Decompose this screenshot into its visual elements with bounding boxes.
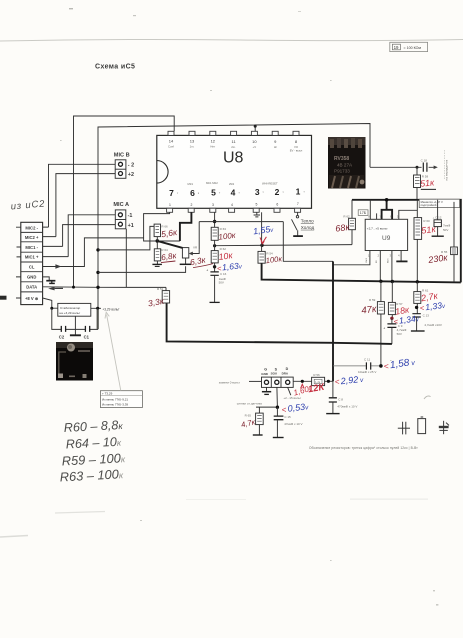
svg-text:MIC2 -: MIC2 - [25, 225, 38, 230]
resistor R64 [152, 248, 168, 267]
wire: pin3 drop to node [261, 212, 263, 251]
wire: MIC A +1 to J1 [63, 225, 116, 247]
node sensor [276, 406, 279, 409]
svg-text:14: 14 [169, 139, 174, 144]
symbol: polarized cap [439, 421, 449, 434]
scan specks top [69, 8, 73, 9]
node R63 bottom [213, 244, 216, 247]
svg-text:5: 5 [211, 188, 216, 198]
connector GND SOU DRA [261, 367, 293, 387]
arrow to transmitter [434, 166, 438, 170]
thick wire: pin6 zigzag [180, 212, 192, 241]
svg-text:6: 6 [190, 188, 195, 198]
stray pencil mark [424, 396, 431, 399]
note box: Меняется +1,47V подстройкой [419, 199, 459, 207]
svg-text:C2: C2 [59, 335, 65, 340]
capacitor C15 [273, 407, 303, 437]
U9 pin4 ground [396, 251, 407, 262]
photo of PCB (bottom left) [56, 342, 93, 381]
svg-text:SOU: SOU [271, 372, 278, 376]
svg-text:вых: вых [365, 257, 368, 262]
U9 pin sideways labels [365, 257, 390, 263]
IC U8 [157, 135, 312, 208]
svg-text:DATA: DATA [26, 285, 37, 290]
svg-text:+2: +2 [128, 172, 134, 178]
svg-text:Схема иС5: Схема иС5 [95, 64, 135, 71]
svg-text:10к: 10к [218, 250, 234, 262]
scan artifact top wavy line [0, 39, 463, 41]
svg-text:2: 2 [191, 203, 193, 207]
svg-text:Холод: Холод [301, 225, 315, 230]
svg-text:GND: GND [261, 372, 269, 376]
svg-text:17Б: 17Б [360, 211, 367, 215]
svg-text:= 100 КОм: = 100 КОм [404, 46, 422, 50]
svg-text:47мкФ х 10 V: 47мкФ х 10 V [284, 422, 302, 426]
resistor R62b 10k [211, 247, 226, 272]
wire: sensor row [256, 387, 277, 407]
svg-text:Нет: Нет [210, 145, 215, 149]
svg-text:R 64: R 64 [161, 248, 168, 252]
resistor R59 [369, 281, 384, 366]
resistor R62 68k [343, 215, 355, 245]
svg-text:GND: GND [27, 275, 36, 280]
wire: CL row with arrow [43, 238, 144, 267]
svg-text:-1: -1 [128, 213, 133, 219]
left edge dark dash [0, 296, 7, 300]
svg-text:3: 3 [255, 187, 260, 197]
U9 top jumper loop (thick) [382, 200, 393, 220]
svg-text:MIC1 +: MIC1 + [25, 255, 39, 260]
resistor R61 [414, 282, 429, 314]
VR wiper arrow [192, 250, 199, 254]
svg-text:Coef: Coef [168, 145, 174, 149]
wire: bias branch to R66 top [98, 226, 154, 250]
ground between C2 C1 [74, 316, 76, 335]
wire: +V rail top (y127 to x370) [98, 124, 370, 309]
connector J1 8-pin (left) [16, 222, 43, 304]
junction dots on +3.29 rail [96, 248, 99, 251]
wire: U9 pin2 pin3 drops [380, 251, 392, 282]
symbol: battery cell [418, 417, 426, 434]
svg-text:4,7мкФ х10V: 4,7мкФ х10V [424, 323, 442, 327]
label box 17Б [358, 210, 368, 216]
connector MIC B [114, 152, 134, 178]
svg-text:WHI-RESET: WHI-RESET [262, 181, 278, 185]
DRA pin stub [288, 387, 291, 395]
svg-text:19: 19 [394, 45, 399, 50]
legend box 19 = 100 KOm [390, 42, 428, 51]
node R66 bottom [156, 239, 160, 243]
node above C13 [415, 306, 418, 309]
ground under G pin [266, 387, 268, 391]
svg-text:RV358: RV358 [334, 156, 349, 162]
wire: branch to VR bottom [98, 266, 186, 272]
wire: MIC A -1 to J1 [68, 215, 115, 257]
svg-text:47к: 47к [361, 304, 378, 317]
capacitor C12 [432, 200, 451, 236]
svg-text:+1: +1 [128, 223, 134, 229]
capacitor C13 [411, 313, 442, 331]
svg-text:1: 1 [169, 203, 171, 207]
IC U9 [365, 219, 407, 250]
svg-text:+: + [206, 268, 208, 272]
wire: DATA up along MIC A edge [125, 229, 127, 287]
svg-text:7: 7 [297, 202, 299, 206]
svg-text:<: < [335, 378, 340, 387]
stabilizer box [52, 303, 101, 316]
svg-text:R64 – 10к: R64 – 10к [65, 435, 122, 452]
svg-text:7мкФ: 7мкФ [443, 224, 451, 228]
U8 bottom pin names tiny [188, 181, 278, 186]
svg-text:МК1 МК2: МК1 МК2 [206, 181, 218, 185]
svg-text:сигнал от датчика: сигнал от датчика [237, 401, 262, 405]
svg-text:вых: вых [387, 258, 390, 263]
svg-text:51к: 51к [421, 224, 437, 236]
svg-text:470мкФ х 10 V: 470мкФ х 10 V [337, 404, 357, 408]
svg-text:C 11: C 11 [364, 357, 370, 361]
svg-text:10: 10 [252, 139, 257, 144]
U8 top pin numbers [169, 139, 298, 144]
U8 bottom big pin numbers 7..1 [169, 187, 301, 198]
wire: MIC B -2 to J1 [49, 164, 116, 227]
wire: left drop to R62 [351, 200, 353, 219]
svg-text:▵ C 12: ▵ C 12 [433, 215, 442, 219]
trimmer VR [157, 241, 198, 264]
svg-text:на +3,29 вольт: на +3,29 вольт [59, 311, 80, 315]
svg-text:U8: U8 [223, 150, 244, 167]
svg-text:13: 13 [190, 139, 195, 144]
svg-text:МК1: МК1 [188, 182, 194, 186]
faint bottom line [350, 499, 428, 500]
svg-text:R 63: R 63 [220, 227, 227, 231]
svg-text:68к: 68к [335, 222, 351, 234]
svg-text:2: 2 [275, 187, 280, 197]
svg-text:на передатчик: на передатчик [445, 159, 449, 180]
svg-text:MIC B: MIC B [114, 152, 130, 158]
svg-text:C 8: C 8 [338, 397, 343, 401]
capacitor C16 [206, 268, 226, 302]
svg-text:ИК2: ИК2 [229, 182, 235, 186]
svg-text:+ Т3,29: + Т3,29 [102, 392, 113, 396]
U9 pin numbers tiny [368, 215, 400, 258]
svg-text:<: < [282, 405, 287, 414]
note box with menu values [100, 391, 142, 408]
U8 top pin stubs 14..8 [168, 131, 299, 135]
wire: J1 row stubs [43, 227, 69, 257]
svg-text:<: < [384, 361, 389, 371]
resistor R66 [154, 224, 168, 249]
wire: stabilizer bottom loop [52, 308, 98, 329]
switch Тепло/Холод [292, 212, 315, 236]
svg-text:Ш: Ш [274, 145, 277, 149]
resistor R51 3,3k [157, 287, 170, 303]
svg-text:5: 5 [256, 203, 258, 207]
junction pin10/+V [254, 125, 257, 128]
wire: feedback row L1 y245 [215, 245, 352, 246]
wire: C18 row [370, 166, 434, 168]
svg-text:- 2: - 2 [128, 163, 134, 169]
svg-text:1m.: 1m. [190, 145, 195, 149]
wire: conn to R56 [293, 380, 311, 382]
svg-text:C1: C1 [84, 335, 90, 340]
capacitor C1 [85, 326, 89, 332]
wire: R54 bottom long row to right edge [262, 263, 461, 282]
capacitor C9 [383, 318, 407, 344]
svg-text:EV - выкл: EV - выкл [290, 149, 303, 153]
resistor R55 [441, 202, 457, 282]
svg-text:7: 7 [169, 188, 174, 198]
svg-text:12: 12 [211, 139, 216, 144]
svg-text:P91733: P91733 [334, 169, 350, 174]
wire: +8V row to stabilizer [43, 298, 52, 308]
resistor R60 (tall) [414, 200, 430, 282]
wire: y221.6 row to VR wiper and right corner [199, 222, 333, 262]
svg-text:1: 1 [296, 187, 301, 197]
svg-text:R 62: R 62 [343, 215, 350, 219]
svg-text:Меняется +1,47 V: Меняется +1,47 V [421, 200, 443, 204]
svg-text:50V: 50V [219, 281, 224, 285]
resistor R58 [414, 167, 429, 200]
svg-text:Тепло: Тепло [301, 218, 314, 223]
svg-text:Стабилизатор: Стабилизатор [60, 306, 81, 310]
node 1,55v [260, 244, 263, 247]
resistor R56 [312, 373, 325, 385]
U8 bottom pin stubs [167, 208, 301, 212]
wire: zero-volt feed [249, 380, 262, 382]
faint pencil line bottom left [55, 512, 105, 514]
resistor R65 [245, 407, 264, 435]
svg-text:DRA: DRA [282, 371, 289, 375]
wire: R56 to x333 [325, 380, 333, 382]
svg-text:замени 0 вольт: замени 0 вольт [219, 381, 241, 385]
svg-text:+V: +V [253, 145, 257, 149]
svg-text:Из меню 77Ю-9,21: Из меню 77Ю-9,21 [102, 397, 128, 401]
svg-text:6: 6 [276, 202, 278, 206]
svg-text:MIC2 +: MIC2 + [25, 235, 39, 240]
capacitor C8 [326, 381, 357, 413]
svg-text:U9: U9 [382, 235, 391, 242]
junction dots on long row [379, 280, 382, 283]
svg-text:2m.: 2m. [231, 145, 236, 149]
U8 top pin names [168, 145, 303, 153]
capacitor C11 [333, 357, 381, 374]
wire: long bottom bus [167, 303, 392, 344]
svg-text:Обозначение резисторов: третья: Обозначение резисторов: третья цифра* ст… [309, 446, 418, 450]
svg-text:R 56: R 56 [313, 373, 320, 377]
wire: MIC B +2 to J1 [56, 174, 115, 237]
wire: pin14 net (x73.5 vertical, y116 horizontal) [74, 116, 175, 287]
wire: x333 vertical [332, 261, 334, 381]
svg-text:подстройкой: подстройкой [421, 203, 437, 207]
wire: U9 pin1 to x333 [333, 251, 370, 265]
svg-text:CL: CL [29, 265, 35, 270]
wire: thick top rail y200 [352, 200, 461, 283]
resistor R63 [211, 227, 226, 250]
U8 bottom small pin numbers [169, 202, 299, 207]
red caret at R56 node [301, 384, 304, 388]
svg-text:+: + [383, 326, 385, 330]
symbol: capacitor glyph [398, 422, 410, 435]
svg-text:50V: 50V [443, 228, 448, 232]
capacitor C18 [421, 158, 428, 171]
svg-text:4B 27A: 4B 27A [337, 163, 353, 168]
svg-text:+3,29 вольт: +3,29 вольт [102, 307, 120, 311]
svg-text:MIC A: MIC A [113, 202, 129, 208]
scan speckles [60, 80, 438, 606]
svg-text:3: 3 [212, 203, 214, 207]
svg-text:51к: 51к [420, 177, 436, 188]
leader line from note box to +3,29 node [107, 315, 121, 391]
photo of IC chip (top right) [328, 137, 366, 189]
node above C16 [213, 265, 216, 268]
svg-text:Из меню 77Ю-3,39: Из меню 77Ю-3,39 [102, 403, 128, 407]
node C18/R58 [416, 166, 419, 169]
node 1,58v [379, 364, 383, 368]
node on rail at U9 jumper [385, 198, 389, 202]
wire: pin7 L path [144, 212, 180, 241]
wire: GND row ground symbol [43, 277, 50, 280]
tiny glyphs after big numbers [177, 190, 306, 195]
svg-text:R 65: R 65 [245, 414, 252, 418]
connector MIC A [113, 202, 133, 229]
svg-text:C 15: C 15 [284, 415, 291, 419]
wire: DATA row with arrow [43, 286, 166, 289]
svg-text:+2,7...+5 вольт: +2,7...+5 вольт [367, 227, 389, 231]
resistor R54 [258, 251, 273, 263]
wire: pin5 drop [214, 212, 216, 227]
capacitor C2 [61, 326, 65, 332]
svg-text:R 60: R 60 [423, 219, 430, 223]
svg-text:MIC1 -: MIC1 - [25, 245, 38, 250]
wire: pin10 drop [254, 126, 256, 131]
svg-text:R 59: R 59 [369, 298, 376, 302]
svg-text:C 13: C 13 [423, 313, 430, 317]
resistor R57 [388, 282, 402, 319]
node pin5 / y221.6 [213, 220, 216, 223]
svg-text:C 18: C 18 [421, 158, 428, 162]
node above C9 [390, 317, 393, 320]
pin 3 tick bar [254, 212, 260, 217]
svg-text:50V: 50V [397, 332, 402, 336]
svg-text:+2...15 вольт: +2...15 вольт [283, 396, 301, 400]
connector left ticks [16, 227, 21, 298]
svg-text:4: 4 [231, 188, 236, 198]
svg-text:10мкФ х 25 V: 10мкФ х 25 V [358, 370, 376, 374]
svg-text:4: 4 [231, 203, 233, 207]
svg-text:+8 V ⊛: +8 V ⊛ [25, 296, 39, 301]
U9 top pin stubs [370, 200, 417, 220]
